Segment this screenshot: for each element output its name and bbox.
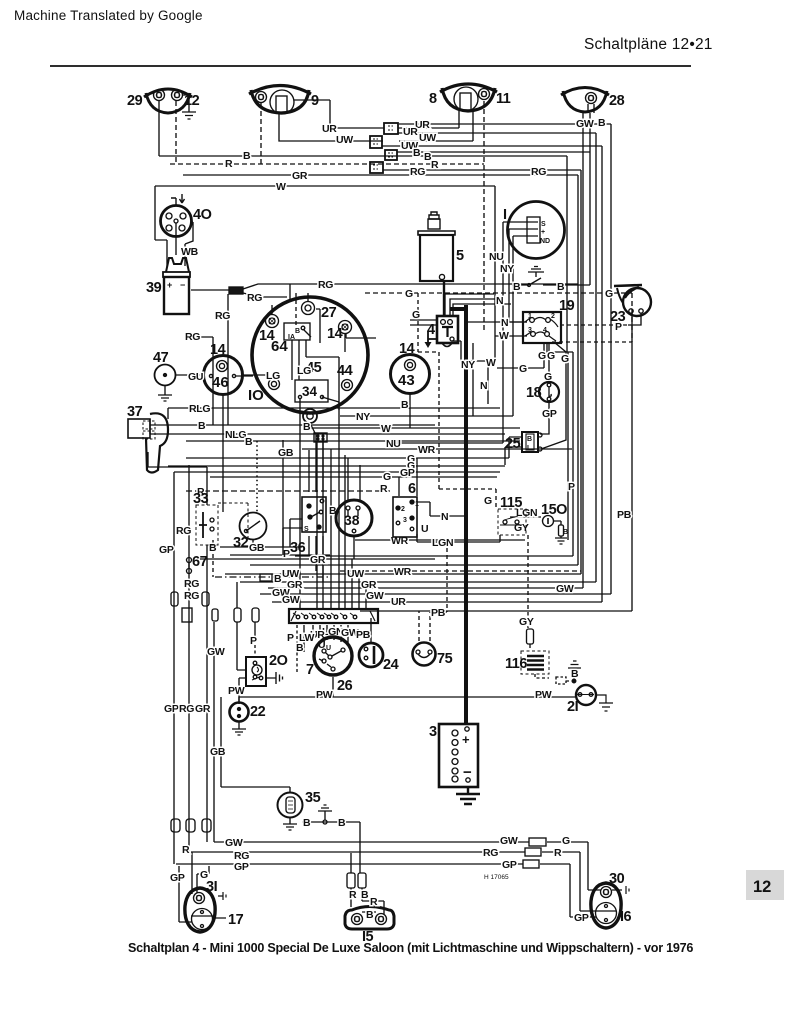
inline fuse left c xyxy=(212,609,218,621)
headlamp 9 xyxy=(249,86,319,115)
wire 27 to GR xyxy=(316,309,320,343)
svg-text:NU: NU xyxy=(386,438,401,450)
wire GW left vertical xyxy=(214,622,216,842)
svg-text:G: G xyxy=(561,353,569,365)
corner row y556 xyxy=(295,555,573,557)
svg-text:+: + xyxy=(462,732,470,747)
svg-text:UW: UW xyxy=(419,132,436,144)
front lamp 17/31 xyxy=(179,879,244,932)
fuel pump 5 xyxy=(418,212,464,281)
svg-text:W: W xyxy=(381,423,391,435)
svg-text:B: B xyxy=(361,889,369,901)
wire UW right run2 xyxy=(382,146,602,602)
svg-text:47: 47 xyxy=(153,350,169,366)
bulb 14 (right in cluster) xyxy=(327,321,352,343)
flasher 116 xyxy=(505,616,581,684)
svg-text:PW: PW xyxy=(316,689,333,701)
wire through fuse d xyxy=(237,582,246,670)
svg-text:1: 1 xyxy=(415,501,419,508)
wire GP 18 to relay25 xyxy=(540,402,549,434)
wire WB coil xyxy=(176,222,193,266)
fuse GP bottom xyxy=(523,860,539,868)
connector RG xyxy=(229,287,243,294)
svg-text:UR: UR xyxy=(322,123,337,135)
wire P dashed into 20 xyxy=(254,645,256,657)
switch 33 xyxy=(193,491,218,545)
svg-text:B: B xyxy=(243,150,251,162)
wire RG bottom row xyxy=(191,852,616,911)
svg-text:Schaltplan 4 - Mini 1000 Speci: Schaltplan 4 - Mini 1000 Special De Luxe… xyxy=(128,941,693,955)
wire NLG row xyxy=(150,425,505,434)
number plate lamp 15 xyxy=(345,873,394,945)
header text xyxy=(14,8,713,53)
bulb (45 left) xyxy=(266,370,280,390)
wire W row 428 xyxy=(310,427,520,429)
svg-text:19: 19 xyxy=(559,298,575,314)
svg-text:G: G xyxy=(412,309,420,321)
svg-text:GW: GW xyxy=(576,118,594,130)
wire RG top right xyxy=(383,170,581,574)
starter solenoid 4 xyxy=(425,316,459,348)
svg-text:2O: 2O xyxy=(269,653,288,669)
svg-text:115: 115 xyxy=(500,495,522,511)
connector on B row xyxy=(260,574,272,581)
svg-text:B: B xyxy=(296,642,304,654)
wire GP left vertical xyxy=(174,472,179,922)
wire R dashed drop lamp9 xyxy=(260,103,262,164)
svg-text:UW: UW xyxy=(336,134,353,146)
svg-text:B: B xyxy=(198,420,206,432)
svg-text:RG: RG xyxy=(215,310,230,322)
wire P dashed to ignition xyxy=(296,625,298,672)
svg-text:NLG: NLG xyxy=(225,429,246,441)
wire solenoid inputs xyxy=(410,320,436,325)
svg-text:R: R xyxy=(380,483,388,495)
relay 115 xyxy=(498,495,526,535)
bulb 44 xyxy=(337,363,353,391)
svg-text:GP: GP xyxy=(164,703,179,715)
wire RLG row xyxy=(168,408,500,419)
wire B row 822 xyxy=(302,822,384,914)
svg-text:116: 116 xyxy=(505,656,527,672)
svg-text:22: 22 xyxy=(250,704,266,720)
fuse strip xyxy=(289,609,378,623)
connector left box xyxy=(182,608,192,622)
wire RG vertical left xyxy=(227,294,229,425)
switch box 36 xyxy=(283,497,337,556)
svg-text:B: B xyxy=(245,436,253,448)
svg-text:P: P xyxy=(615,321,622,333)
svg-text:N: N xyxy=(480,380,487,392)
svg-text:B: B xyxy=(295,328,300,335)
corner row y602 xyxy=(272,601,602,603)
wire GY dashed flasher xyxy=(528,535,530,649)
svg-text:GB: GB xyxy=(249,542,265,554)
svg-text:R: R xyxy=(182,844,190,856)
svg-text:G: G xyxy=(405,288,413,300)
wire 38 connections xyxy=(348,458,360,559)
switch 6 xyxy=(393,481,430,537)
wire LG row from 46 xyxy=(242,374,268,376)
wire GP row 472 xyxy=(174,471,500,473)
wire dashed row y342 xyxy=(552,341,632,343)
switch 20 xyxy=(246,653,288,686)
lamp 18 xyxy=(526,382,559,420)
svg-text:I: I xyxy=(503,207,507,223)
svg-text:IA: IA xyxy=(288,334,295,341)
strip to ignition 26 xyxy=(304,625,348,652)
svg-text:6: 6 xyxy=(408,481,416,497)
lamp 21 xyxy=(535,685,613,715)
svg-text:WR: WR xyxy=(394,566,412,578)
switch 24 xyxy=(359,643,399,673)
svg-text:PB: PB xyxy=(431,607,446,619)
svg-text:B: B xyxy=(401,399,409,411)
bulb 14 (left in cluster) xyxy=(259,315,279,345)
svg-text:RG: RG xyxy=(247,292,262,304)
gauge 38 xyxy=(336,500,372,536)
svg-text:LG: LG xyxy=(297,365,311,377)
svg-text:R: R xyxy=(554,847,562,859)
wire LGN 6 to 115 xyxy=(417,534,500,542)
wire PW row 697 xyxy=(239,696,576,698)
svg-text:S: S xyxy=(541,221,546,228)
svg-text:P: P xyxy=(287,632,294,644)
svg-text:R: R xyxy=(349,889,357,901)
headlamp 8/11 xyxy=(429,84,511,111)
wire G row 465 xyxy=(168,465,505,467)
svg-text:H 17065: H 17065 xyxy=(484,874,509,881)
svg-text:9: 9 xyxy=(311,93,319,109)
rear lamp 30/16 xyxy=(574,871,632,928)
dip switch 19 xyxy=(523,298,575,343)
wire RG coil bottom xyxy=(190,337,213,425)
wire GW lamp28 xyxy=(583,104,588,588)
svg-text:GY: GY xyxy=(519,616,534,628)
wire UW right run xyxy=(398,133,596,582)
box 34 xyxy=(295,365,339,411)
svg-text:GP: GP xyxy=(502,859,517,871)
svg-text:GW: GW xyxy=(282,594,300,606)
svg-text:B: B xyxy=(366,909,374,921)
svg-text:RG: RG xyxy=(531,166,546,178)
lamp 27 xyxy=(302,302,337,322)
svg-text:PW: PW xyxy=(228,685,245,697)
wire NU regulator xyxy=(395,222,529,443)
svg-text:GW: GW xyxy=(225,837,243,849)
wire 64 to 34 xyxy=(292,340,339,410)
wire GP bottom row xyxy=(176,864,596,917)
wire P switch19 to corner xyxy=(547,344,573,556)
wire R dashed drop lamp11 xyxy=(483,101,485,330)
svg-text:37: 37 xyxy=(127,404,143,420)
wire RG to cluster xyxy=(243,293,287,297)
svg-text:2: 2 xyxy=(551,313,555,320)
wire NY solenoid xyxy=(472,343,474,416)
gauge 32 xyxy=(233,513,267,552)
svg-text:WR: WR xyxy=(418,444,436,456)
svg-text:I5: I5 xyxy=(362,929,374,945)
svg-text:15O: 15O xyxy=(541,502,567,518)
svg-text:Schaltpläne 12•21: Schaltpläne 12•21 xyxy=(584,36,713,53)
inline fuse left e xyxy=(252,608,259,622)
wire W solenoid to switch19 xyxy=(452,336,527,361)
relay 25 xyxy=(505,432,542,452)
headlamp 29/12 xyxy=(127,89,200,113)
svg-text:14: 14 xyxy=(210,342,226,358)
svg-text:2: 2 xyxy=(401,506,405,513)
svg-text:64: 64 xyxy=(271,338,288,355)
ground above brake switch xyxy=(528,267,544,278)
svg-text:33: 33 xyxy=(193,491,209,507)
svg-text:U: U xyxy=(326,645,331,652)
svg-text:18: 18 xyxy=(526,385,542,401)
svg-text:RG: RG xyxy=(179,703,194,715)
ground junction on B wire xyxy=(318,805,332,824)
svg-text:25: 25 xyxy=(505,436,521,452)
svg-text:GW: GW xyxy=(500,835,518,847)
wire G stubs 19 xyxy=(497,342,568,540)
wire WR row 540 xyxy=(355,539,525,541)
svg-text:LG: LG xyxy=(266,370,280,382)
svg-text:W: W xyxy=(499,330,509,342)
svg-text:RG: RG xyxy=(483,847,498,859)
wire 20 connections xyxy=(254,622,256,638)
svg-text:I6: I6 xyxy=(620,909,632,925)
wire labels mid xyxy=(185,251,632,549)
dashed link 33 right xyxy=(218,503,248,540)
wire 36 connections xyxy=(309,434,323,582)
svg-text:B: B xyxy=(303,817,311,829)
svg-text:29: 29 xyxy=(127,93,143,109)
svg-text:3I: 3I xyxy=(206,879,218,895)
svg-text:32: 32 xyxy=(233,535,249,551)
instrument cluster 10 xyxy=(248,297,368,413)
svg-text:UR: UR xyxy=(391,596,406,608)
wire horn P xyxy=(628,313,641,325)
wire UW lamp9 to lamp8 xyxy=(279,110,473,141)
wire N row 6 xyxy=(430,515,466,517)
svg-text:P: P xyxy=(568,481,575,493)
wire B row xyxy=(159,101,567,352)
svg-text:B: B xyxy=(571,668,579,680)
corner row y588 xyxy=(268,587,583,589)
svg-text:Machine Translated by Google: Machine Translated by Google xyxy=(14,8,203,23)
svg-text:B: B xyxy=(513,281,521,293)
svg-text:4: 4 xyxy=(543,327,547,334)
svg-text:12: 12 xyxy=(753,878,771,896)
fuel tank 43 xyxy=(391,341,430,394)
wire R dashed row xyxy=(170,101,484,164)
svg-text:B: B xyxy=(209,542,217,554)
svg-text:LGN: LGN xyxy=(432,537,453,549)
corner row y582 xyxy=(240,581,596,583)
svg-text:−: − xyxy=(180,280,185,290)
svg-text:NY: NY xyxy=(500,263,514,275)
svg-text:B: B xyxy=(338,817,346,829)
svg-text:38: 38 xyxy=(344,512,360,528)
horn 23 xyxy=(610,285,651,333)
svg-text:34: 34 xyxy=(302,384,318,399)
wire 32 connections xyxy=(252,540,254,547)
svg-text:GP: GP xyxy=(170,872,185,884)
wire G lamp17 xyxy=(197,866,209,893)
wire LGN 50 xyxy=(510,516,541,518)
svg-text:GW: GW xyxy=(556,583,574,595)
svg-text:43: 43 xyxy=(398,372,415,389)
wire G row 477 xyxy=(210,476,497,478)
svg-text:3: 3 xyxy=(403,517,407,524)
svg-text:27: 27 xyxy=(321,305,337,321)
wire B row 425 xyxy=(150,419,435,425)
svg-text:44: 44 xyxy=(337,363,353,379)
cluster bottom bulb xyxy=(303,409,317,433)
wire GU 47-46 xyxy=(176,375,253,376)
wire 46 down xyxy=(222,395,224,512)
wire 33 connections xyxy=(206,491,208,557)
wire LGN dashed down to 75 xyxy=(431,548,447,612)
wire B row 441 xyxy=(186,440,520,442)
svg-text:GP: GP xyxy=(234,861,249,873)
lamp 47 xyxy=(153,350,176,401)
wire N thick to 19 xyxy=(466,321,527,323)
svg-text:B: B xyxy=(598,117,606,129)
dotted link 33-32 xyxy=(256,441,258,513)
wire RG coil connector xyxy=(191,284,578,290)
wire B brake switch row xyxy=(512,278,590,285)
svg-text:N: N xyxy=(496,295,503,307)
wire UR right run xyxy=(399,124,611,594)
wire P dashed to 19 xyxy=(561,324,627,326)
wire PW 20 to 22 xyxy=(239,678,246,703)
svg-text:RG: RG xyxy=(410,166,425,178)
connector box 4 xyxy=(370,162,383,173)
svg-text:5: 5 xyxy=(456,248,464,264)
svg-text:RG: RG xyxy=(185,331,200,343)
svg-text:U: U xyxy=(421,523,428,535)
svg-text:WB: WB xyxy=(181,246,199,258)
inline fuse left a xyxy=(171,592,178,606)
svg-text:G: G xyxy=(562,835,570,847)
svg-text:R: R xyxy=(431,159,439,171)
cluster drop wires xyxy=(300,398,366,609)
inline fuse GP xyxy=(171,819,180,832)
svg-text:GP: GP xyxy=(159,544,174,556)
switch 50 xyxy=(541,502,568,544)
inline fuse left b xyxy=(202,592,209,606)
svg-text:S: S xyxy=(304,526,309,533)
svg-text:R: R xyxy=(370,896,378,908)
svg-text:+: + xyxy=(167,280,172,290)
svg-text:PB: PB xyxy=(617,509,632,521)
svg-text:B: B xyxy=(527,436,532,443)
wire labels top xyxy=(225,119,546,193)
svg-text:RLG: RLG xyxy=(189,403,210,415)
item 67 connectors xyxy=(187,558,192,574)
svg-text:GU: GU xyxy=(188,371,203,383)
wire GR row xyxy=(183,175,578,565)
connector box 2 xyxy=(370,136,382,148)
wire PB vertical xyxy=(360,313,632,611)
fuel gauge 64 xyxy=(271,323,311,355)
svg-text:B: B xyxy=(413,147,421,159)
svg-text:B: B xyxy=(563,529,568,536)
svg-text:67: 67 xyxy=(192,554,208,570)
wire 35 feed xyxy=(289,787,291,793)
svg-text:1: 1 xyxy=(528,313,532,320)
svg-text:GW: GW xyxy=(207,646,225,658)
svg-text:B: B xyxy=(557,281,565,293)
svg-text:39: 39 xyxy=(146,280,162,296)
fuse RG bottom xyxy=(525,848,541,856)
wire 37 ground loop xyxy=(148,452,207,491)
svg-text:IO: IO xyxy=(248,387,264,404)
svg-text:GP: GP xyxy=(400,467,415,479)
wire pump bottom xyxy=(443,281,445,316)
svg-text:R: R xyxy=(225,158,233,170)
svg-text:−: − xyxy=(463,764,472,781)
svg-text:GR: GR xyxy=(195,703,211,715)
ignition switch 26 xyxy=(306,637,353,694)
svg-text:P: P xyxy=(283,548,290,560)
wire 24 up xyxy=(370,618,372,644)
wire NY regulator xyxy=(340,236,529,416)
svg-text:+: + xyxy=(541,229,545,236)
wiper motor 37 xyxy=(127,404,168,473)
inline fuse GR xyxy=(202,819,211,832)
interior lamp 35 xyxy=(278,790,321,830)
svg-text:75: 75 xyxy=(437,651,453,667)
svg-text:4O: 4O xyxy=(193,207,212,223)
wire 26 down PW xyxy=(332,677,334,697)
corner row y565 xyxy=(250,564,578,566)
wire labels lower xyxy=(159,525,574,884)
switch 75 xyxy=(413,643,453,668)
wire relay25 left xyxy=(505,437,522,465)
connector under cluster xyxy=(314,433,327,442)
wire 6 connections xyxy=(399,458,417,496)
wire RG left vertical xyxy=(189,465,192,894)
svg-text:14: 14 xyxy=(399,341,415,357)
svg-text:GP: GP xyxy=(574,912,589,924)
svg-text:G: G xyxy=(519,363,527,375)
svg-text:NY: NY xyxy=(461,359,475,371)
svg-text:PW: PW xyxy=(535,689,552,701)
wire B right run xyxy=(397,151,590,153)
wire WR row 571 dashed xyxy=(340,570,581,572)
ignition coil 39 xyxy=(146,246,199,314)
wire R row 491 xyxy=(186,490,393,492)
svg-text:B: B xyxy=(303,421,311,433)
svg-text:2I: 2I xyxy=(567,699,579,715)
svg-text:RG: RG xyxy=(318,279,333,291)
svg-text:RG: RG xyxy=(184,578,199,590)
lamp 22 xyxy=(230,703,266,736)
svg-text:24: 24 xyxy=(383,657,399,673)
svg-text:G: G xyxy=(484,495,492,507)
wire B lamp28 xyxy=(590,104,594,285)
wire GW bottom row xyxy=(216,842,601,890)
svg-text:W: W xyxy=(276,181,286,193)
corner row y574 xyxy=(225,573,581,575)
wire G row 458 xyxy=(186,457,509,459)
wire B 43 xyxy=(409,394,411,428)
svg-text:PB: PB xyxy=(356,629,371,641)
inline fuse RG xyxy=(186,819,195,832)
wire GR left vertical xyxy=(206,557,208,842)
wire B row 577 dash-dot xyxy=(215,576,330,578)
wire B vertical x213 xyxy=(212,540,214,577)
